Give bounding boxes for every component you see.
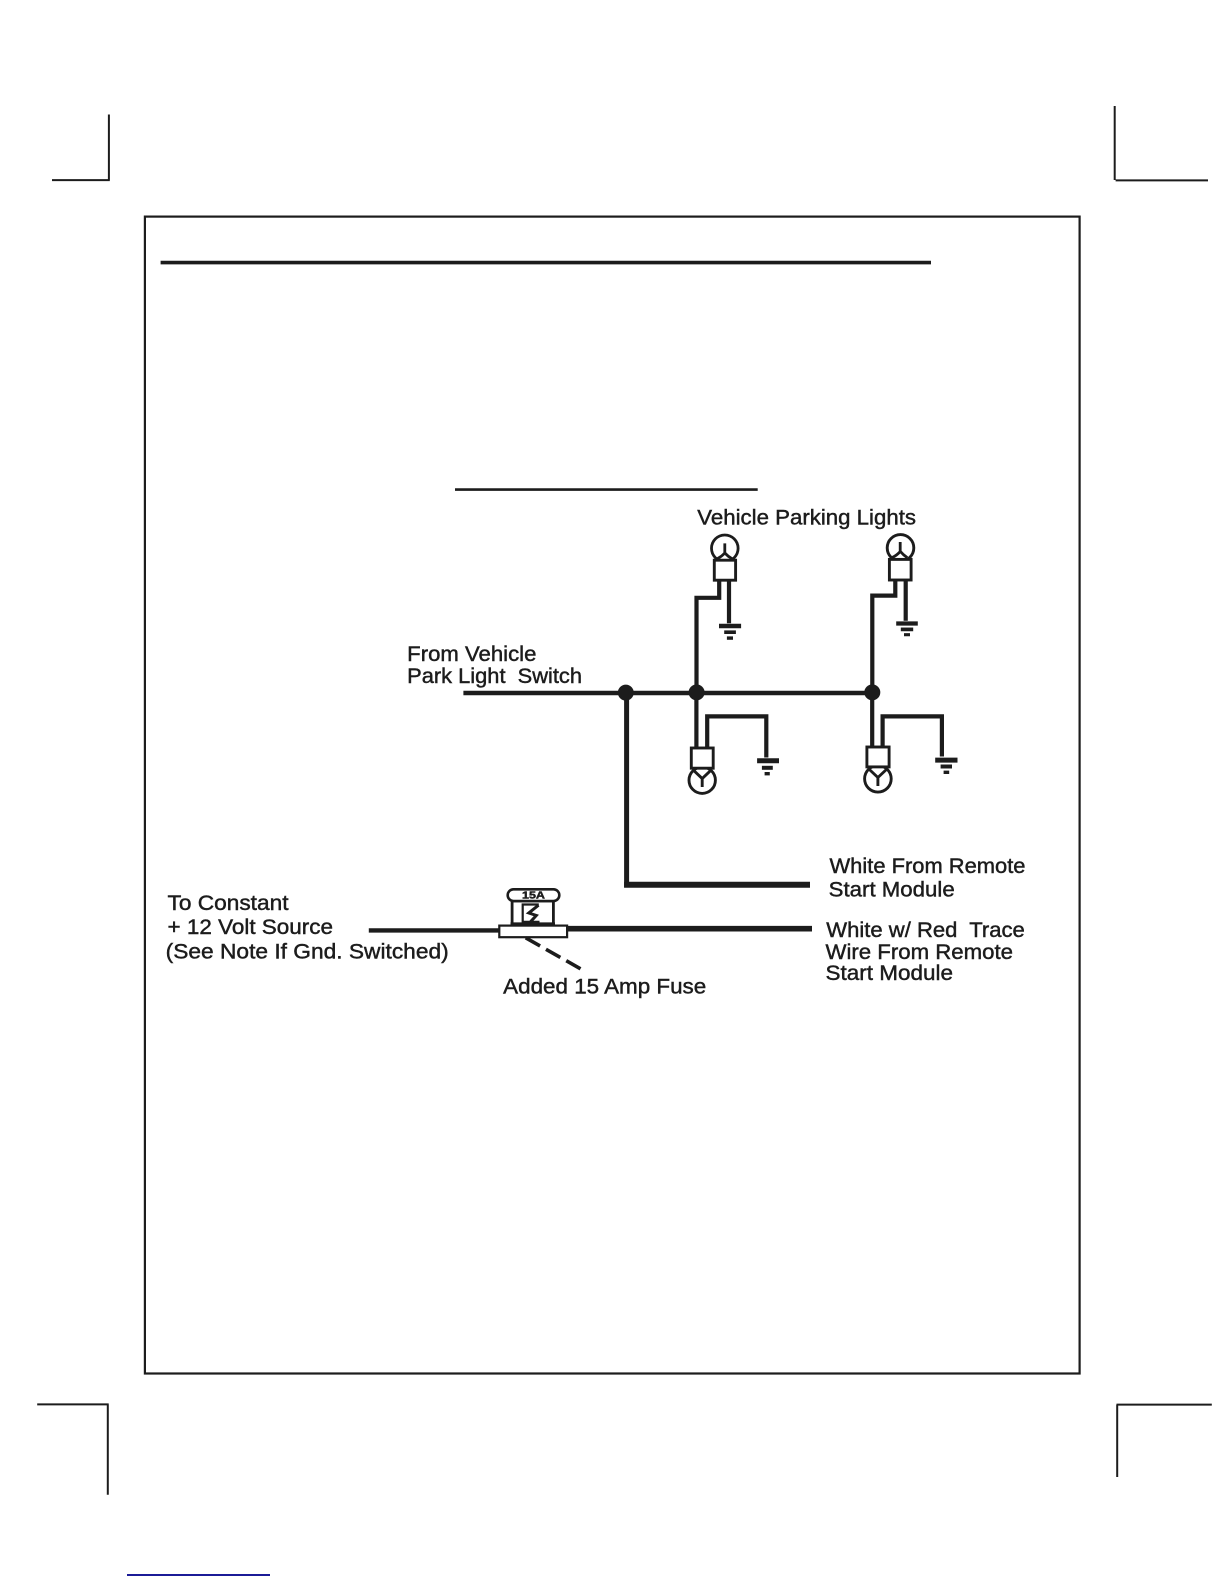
- svg-text:White From Remote: White From Remote: [830, 854, 1026, 878]
- svg-text:15A: 15A: [522, 891, 545, 902]
- wire: park light bus: [463, 691, 873, 696]
- lamp L3 lower-left parking light: [689, 693, 766, 793]
- node: junction 2: [689, 684, 705, 700]
- leader line to fuse: [526, 938, 581, 969]
- lamp L4 lower-right parking light: [865, 693, 942, 792]
- node: junction 1: [618, 685, 634, 701]
- label: To Constant + 12 Volt Source: [166, 891, 449, 964]
- svg-text:Park Light Switch: Park Light Switch: [407, 664, 582, 688]
- wire: white from remote start module: [624, 693, 810, 888]
- ground: lamp L3: [757, 761, 779, 774]
- lamp L1 top-left parking light: [697, 535, 739, 688]
- svg-text:White w/ Red Trace: White w/ Red Trace: [826, 918, 1025, 942]
- label: White w/ Red Trace Wire From Remote Start Module: [826, 918, 1025, 985]
- svg-text:Start Module: Start Module: [829, 878, 955, 902]
- fuse F1: added 15 amp fuse: [499, 889, 567, 937]
- ground: lamp L2: [896, 624, 918, 635]
- ground: lamp L4: [935, 760, 957, 772]
- svg-text:Added 15 Amp Fuse: Added 15 Amp Fuse: [503, 974, 706, 998]
- wire: white w/ red trace from fuse to remote start module: [566, 926, 812, 932]
- svg-text:Start Module: Start Module: [826, 961, 954, 985]
- svg-text:To Constant: To Constant: [168, 891, 289, 915]
- label: From Vehicle Park Light Switch: [407, 642, 582, 688]
- label: White From Remote Start Module: [829, 854, 1026, 902]
- svg-text:(See Note If Gnd. Switched): (See Note If Gnd. Switched): [166, 939, 449, 963]
- node: junction 3: [864, 684, 880, 700]
- svg-text:From Vehicle: From Vehicle: [407, 642, 536, 666]
- decorative blue rule: [127, 1574, 270, 1576]
- svg-text:+ 12 Volt Source: + 12 Volt Source: [168, 915, 334, 939]
- lamp L2 top-right parking light: [872, 535, 914, 688]
- wire: constant 12V feed into fuse: [369, 928, 500, 932]
- svg-text:Vehicle Parking Lights: Vehicle Parking Lights: [697, 506, 916, 530]
- ground: lamp L1: [719, 626, 741, 638]
